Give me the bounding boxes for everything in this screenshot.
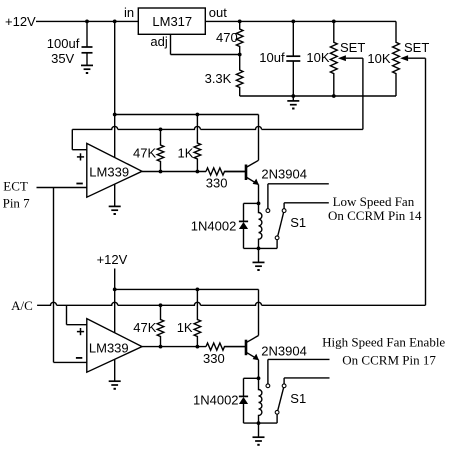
transistor Q1 2N3904: [246, 160, 259, 185]
transistor Q1 label: [261, 166, 307, 181]
switch S1b lever contact: [282, 378, 329, 388]
junction rail/R4 1K: [196, 113, 200, 117]
resistor R6 47K hysteresis: [157, 305, 164, 346]
node High Speed Fan label: [322, 335, 445, 368]
potentiometer VR1 10K: [330, 21, 337, 96]
op-amp U3 minus sign: [76, 357, 82, 359]
wire relay2 bottom: [244, 422, 278, 424]
junction out/C2: [291, 20, 295, 24]
regulator U1 label: [152, 14, 192, 29]
switch S1b label: [290, 391, 306, 406]
op-amp U2 minus sign: [76, 183, 82, 185]
junction +12V/vertical: [113, 20, 117, 24]
svg-text:10K: 10K: [367, 51, 390, 66]
wire +12V lower vertical: [114, 269, 116, 334]
wire reference line upper: [72, 126, 363, 129]
wire +12V vertical to comparator supply: [114, 21, 116, 157]
switch S1a label: [290, 215, 306, 230]
svg-text:100uf: 100uf: [47, 36, 80, 51]
pin label out: [209, 5, 227, 20]
switch S1a contact riser: [266, 184, 329, 213]
regulator U1 LM317 box: [138, 8, 205, 34]
wire relay2 top to D2: [244, 377, 259, 379]
junction relay2 bottom: [257, 421, 261, 425]
wiper arrow VR2: [400, 55, 425, 61]
junction rail/C2: [291, 94, 295, 98]
junction reference/R3 47K: [159, 127, 163, 131]
svg-text:47K: 47K: [133, 320, 156, 335]
resistor R8 330: [206, 343, 246, 350]
potentiometer VR2 SET label: [404, 40, 429, 55]
junction output/R4: [196, 170, 200, 174]
node +12V label: [5, 14, 36, 29]
svg-text:out: out: [209, 5, 227, 20]
junction +12V lower/rail: [113, 288, 117, 292]
op-amp U2 label: [89, 165, 129, 180]
diode D2 label: [193, 393, 239, 408]
potentiometer VR1 value label: [306, 50, 329, 65]
svg-text:470: 470: [216, 30, 238, 45]
svg-text:10K: 10K: [306, 50, 329, 65]
wire A/C reference line lower: [37, 302, 425, 305]
potentiometer VR1 SET label: [340, 40, 365, 55]
switch S1b bottom contact: [275, 410, 279, 423]
junction relay2 top: [257, 376, 261, 380]
svg-text:adj: adj: [150, 34, 167, 49]
svg-text:On CCRM Pin 17: On CCRM Pin 17: [342, 352, 436, 367]
node A/C label: [11, 298, 33, 313]
junction adj/470/3.3K: [238, 53, 242, 57]
wire Q2 emitter down: [258, 360, 260, 379]
wire +12V rail down to Q1 collector: [258, 115, 260, 161]
resistor R4 value label: [178, 145, 194, 160]
resistor R5 value label: [206, 175, 228, 190]
ground under relay2: [253, 423, 265, 445]
svg-text:10uf: 10uf: [259, 50, 285, 65]
relay coil K2: [259, 378, 262, 423]
resistor R2 3.3K: [236, 55, 243, 97]
ground under U3: [109, 359, 121, 389]
ground under rail: [287, 96, 299, 109]
capacitor C2 value label: [259, 50, 285, 65]
switch S1a bottom contact: [275, 236, 279, 248]
wire regulator bottom rail: [240, 95, 396, 97]
op-amp U2 LM339 triangle: [87, 143, 142, 197]
svg-text:S1: S1: [290, 215, 306, 230]
pin label in: [124, 5, 134, 20]
svg-text:LM339: LM339: [89, 340, 129, 355]
relay coil K1: [259, 203, 262, 248]
svg-text:LM317: LM317: [152, 14, 192, 29]
resistor R1 value label: [216, 30, 238, 45]
ground under U2: [109, 184, 121, 214]
svg-text:LM339: LM339: [89, 165, 129, 180]
wire U2 output: [142, 171, 246, 173]
junction relay1 bottom: [257, 247, 261, 251]
svg-text:+12V: +12V: [5, 14, 36, 29]
node Low Speed Fan label: [328, 194, 422, 223]
wiper arrow VR1: [338, 55, 363, 61]
junction output lower/R7: [196, 345, 200, 349]
svg-text:3.3K: 3.3K: [205, 71, 232, 86]
wire ECT to inverting input lower: [54, 361, 87, 363]
op-amp U3 label: [89, 340, 129, 355]
potentiometer VR2 10K: [393, 21, 400, 96]
wire +12V rail lower: [115, 288, 259, 290]
op-amp U2 plus sign: [77, 153, 84, 160]
wire +12V rail upper: [115, 114, 259, 116]
wire VR1 wiper down: [362, 58, 364, 129]
diode D1 label: [191, 219, 237, 234]
svg-text:35V: 35V: [51, 51, 74, 66]
svg-text:Low Speed Fan: Low Speed Fan: [333, 194, 415, 209]
capacitor C1 value label: [47, 36, 80, 66]
resistor R7 1K pullup: [194, 289, 201, 346]
diode D1 1N4002: [239, 203, 248, 248]
diode D2 1N4002: [239, 378, 248, 423]
ground under C1: [81, 65, 93, 73]
wire relay1 top to D1: [244, 202, 259, 204]
junction +12V/C1: [85, 20, 89, 24]
junction out/470: [238, 20, 242, 24]
svg-text:330: 330: [206, 175, 228, 190]
junction rail lower/R7 1K: [196, 288, 200, 292]
junction relay1 top: [257, 202, 261, 206]
svg-text:1N4002: 1N4002: [191, 219, 237, 234]
svg-text:2N3904: 2N3904: [261, 166, 307, 181]
wire VR2 wiper down: [425, 58, 427, 305]
resistor R3 value label: [133, 145, 156, 160]
svg-text:On CCRM Pin 14: On CCRM Pin 14: [328, 208, 422, 223]
switch S1a lever: [278, 213, 284, 236]
resistor R5 330: [206, 168, 246, 175]
junction rail/pot1: [332, 94, 336, 98]
op-amp U3 plus sign: [77, 328, 84, 335]
svg-text:Pin 7: Pin 7: [3, 195, 31, 210]
svg-text:47K: 47K: [133, 145, 156, 160]
svg-text:1K: 1K: [177, 320, 193, 335]
capacitor C1 100uf: [82, 21, 93, 65]
svg-text:A/C: A/C: [11, 298, 33, 313]
svg-text:1K: 1K: [178, 145, 194, 160]
transistor Q2 2N3904: [246, 336, 259, 361]
resistor R1 470: [236, 21, 243, 54]
svg-text:330: 330: [203, 351, 225, 366]
junction output/R3: [159, 170, 163, 174]
wire to non-inverting input upper: [72, 129, 87, 149]
resistor R4 1K pullup: [194, 115, 201, 172]
junction reference lower/R6 47K: [159, 303, 163, 307]
switch S1a lever contact: [282, 203, 329, 213]
svg-text:in: in: [124, 5, 134, 20]
wire LM317 adj: [171, 34, 240, 54]
wire +12V to LM317 in: [36, 20, 138, 22]
resistor R6 value label: [133, 320, 156, 335]
wire ECT to inverting input: [37, 187, 87, 189]
svg-text:1N4002: 1N4002: [193, 393, 239, 408]
wire LM317 out: [205, 20, 396, 22]
potentiometer VR2 value label: [367, 51, 390, 66]
resistor R2 value label: [205, 71, 232, 86]
wire Q1 emitter down: [258, 185, 260, 204]
resistor R8 value label: [203, 351, 225, 366]
switch S1b lever: [278, 388, 284, 411]
svg-text:High Speed Fan Enable: High Speed Fan Enable: [322, 335, 445, 350]
wire relay1 bottom: [244, 247, 278, 249]
node ECT label: [3, 179, 31, 211]
wire ECT down to lower comparator: [53, 188, 55, 363]
capacitor C2 10uf: [286, 21, 300, 96]
node +12V lower label: [97, 252, 128, 267]
switch S1b contact riser: [266, 359, 330, 387]
op-amp U3 LM339 triangle: [87, 319, 142, 373]
resistor R3 47K hysteresis: [157, 129, 164, 171]
junction +12V vertical/rail: [113, 113, 117, 117]
svg-text:SET: SET: [404, 40, 429, 55]
junction output lower/R6: [159, 345, 163, 349]
wire U3 output: [142, 346, 246, 348]
junction out/pot1: [332, 20, 336, 24]
svg-text:ECT: ECT: [3, 179, 28, 194]
svg-text:SET: SET: [340, 40, 365, 55]
transistor Q2 label: [261, 344, 307, 359]
wire to non-inverting input lower: [67, 305, 87, 324]
resistor R7 value label: [177, 320, 193, 335]
wire +12V rail down to Q2 collector: [258, 289, 260, 335]
svg-text:2N3904: 2N3904: [261, 344, 307, 359]
pin label adj: [150, 34, 167, 49]
ground under relay1: [253, 248, 265, 270]
svg-text:S1: S1: [290, 391, 306, 406]
svg-text:+12V: +12V: [97, 252, 128, 267]
